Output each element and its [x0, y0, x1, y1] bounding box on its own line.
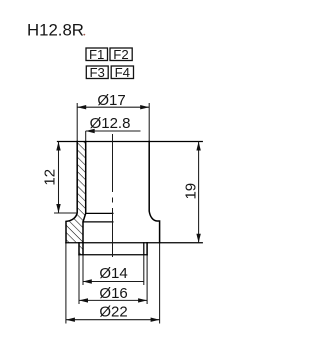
- svg-text:F1: F1: [89, 47, 104, 62]
- svg-text:F3: F3: [90, 65, 105, 80]
- svg-text:F4: F4: [115, 65, 130, 80]
- svg-text:12: 12: [42, 169, 59, 186]
- svg-text:Ø16: Ø16: [99, 285, 127, 302]
- svg-text:19: 19: [182, 183, 199, 200]
- svg-text:Ø22: Ø22: [99, 304, 127, 321]
- svg-text:F2: F2: [113, 47, 128, 62]
- svg-text:Ø17: Ø17: [97, 92, 125, 109]
- svg-text:Ø14: Ø14: [99, 265, 127, 282]
- svg-text:H12.8R: H12.8R: [27, 21, 84, 40]
- svg-text:Ø12.8: Ø12.8: [90, 115, 131, 132]
